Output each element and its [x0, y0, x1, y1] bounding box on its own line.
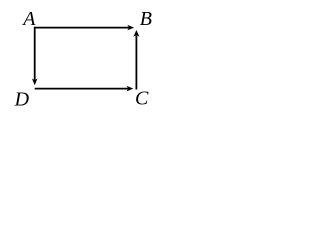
wire A to B (top edge, arrow to B) [35, 25, 134, 31]
wire C to B (right edge, arrow to B) [133, 30, 139, 90]
svg-text:C: C [135, 88, 149, 110]
wire D to C (bottom edge, arrow to C) [35, 86, 134, 92]
wire A to D (left edge, arrow to D) [32, 27, 38, 86]
svg-text:A: A [21, 8, 36, 30]
svg-text:B: B [140, 8, 152, 30]
svg-text:D: D [14, 88, 30, 109]
